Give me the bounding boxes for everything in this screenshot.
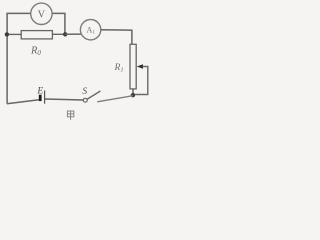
node right junction [63,32,67,36]
svg-text:R1: R1 [114,63,124,74]
svg-text:E: E [36,86,43,96]
rheostat R1 body [114,44,137,89]
svg-text:V: V [38,10,46,21]
ammeter A1 [80,20,100,40]
wire R0 right lead [52,33,65,35]
wire voltmeter right lead down to right junction [52,13,65,33]
wire R0 left lead [8,33,21,35]
node left junction [5,32,9,36]
wire switch to bottom junction [97,96,133,102]
wire bottom left to battery [7,100,39,104]
wire rheostat bottom lead [132,89,134,96]
wire ammeter to rheostat top [101,30,132,45]
battery E [36,86,44,103]
node bottom junction [131,93,135,97]
wire junction to ammeter [65,33,82,35]
svg-text:S: S [82,87,87,97]
switch S [82,87,100,102]
wire battery to switch [45,99,83,100]
svg-text:R0: R0 [30,46,41,58]
rheostat wiper arrow and branch wire [133,64,147,94]
resistor R0 [21,31,52,57]
wire left branch: voltmeter left lead down left side to bottom corner [7,13,31,103]
figure label 甲 [67,111,73,120]
voltmeter V [31,3,52,24]
